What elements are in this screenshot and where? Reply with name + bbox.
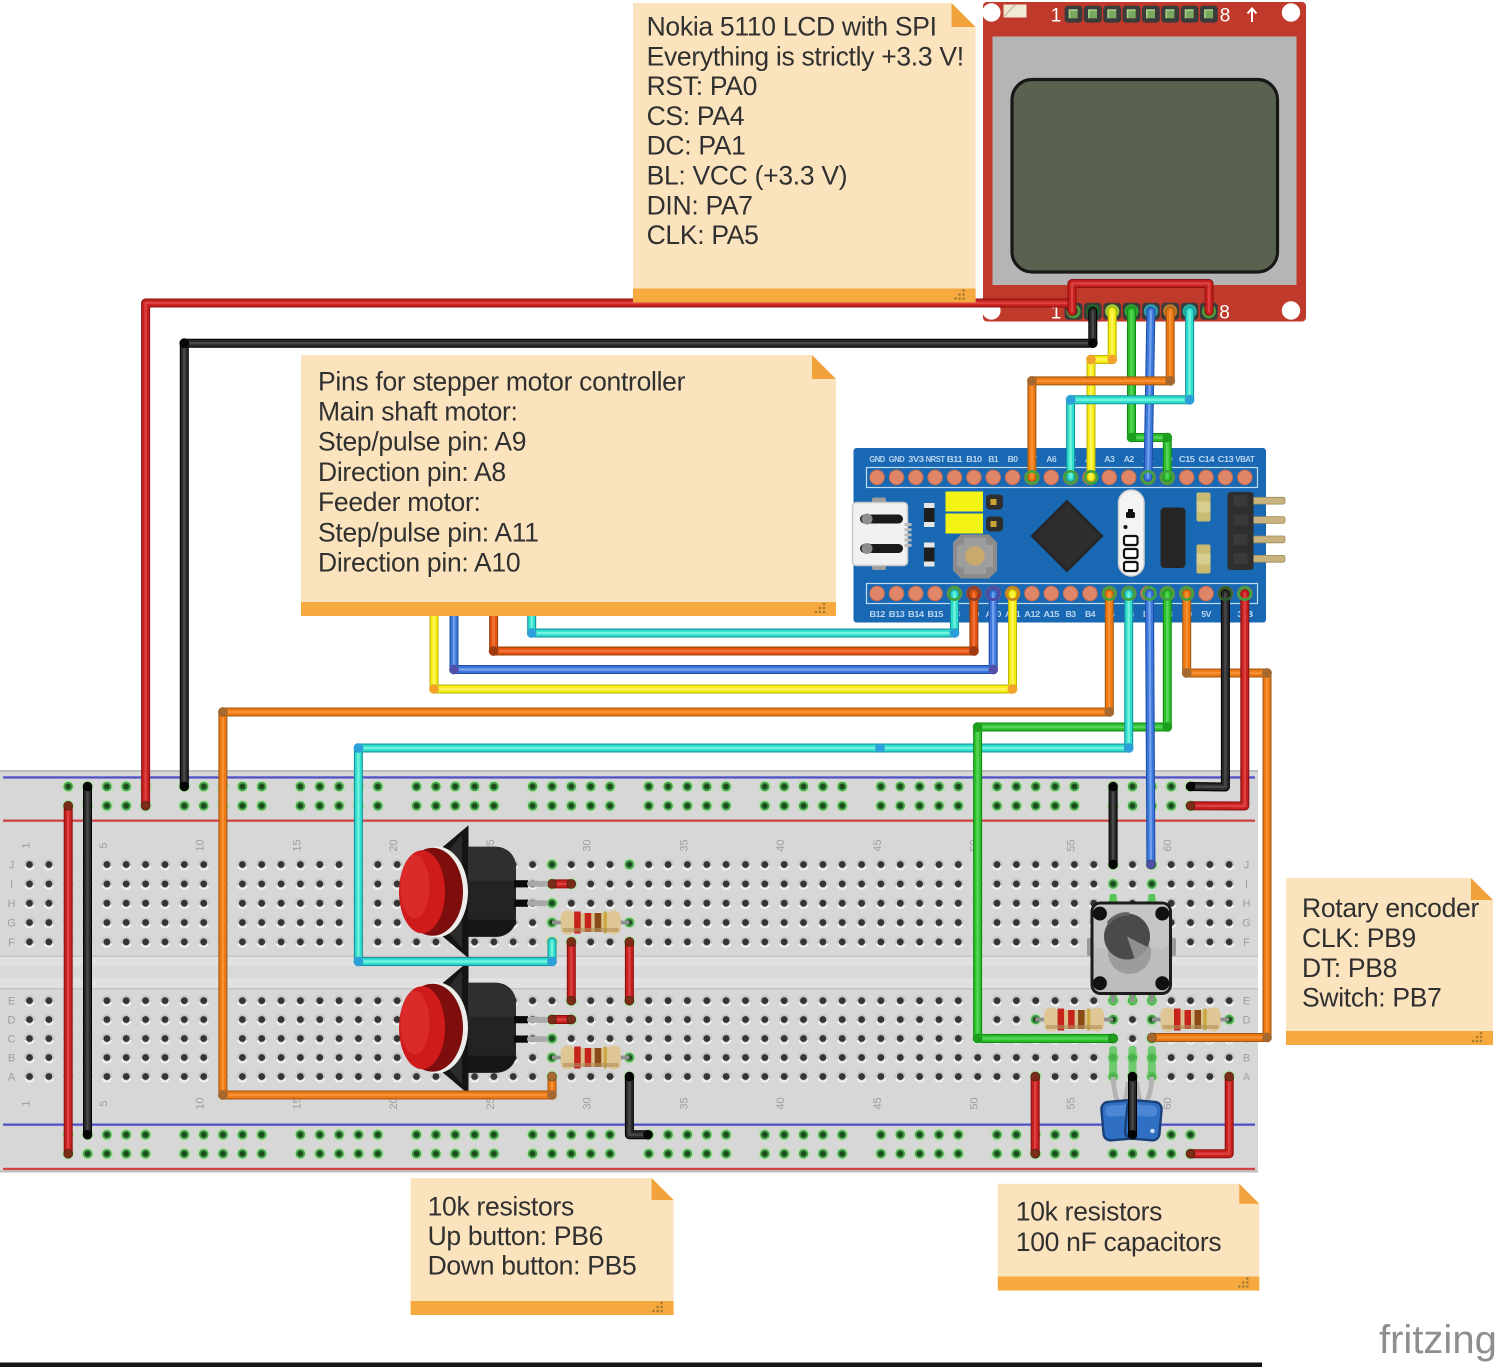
svg-text:1: 1 bbox=[21, 1100, 33, 1106]
svg-text:I: I bbox=[1245, 879, 1248, 891]
svg-text:100 nF capacitors: 100 nF capacitors bbox=[1016, 1227, 1222, 1257]
svg-text:E: E bbox=[8, 996, 15, 1008]
Nokia 5110 LCD module bbox=[982, 2, 1306, 324]
stm32 mcu bbox=[1031, 500, 1104, 573]
wire jumper enc gnd bbox=[1109, 782, 1118, 869]
wire LCD vcc loop bbox=[1072, 284, 1209, 312]
wire jumper enc right bbox=[1186, 1072, 1234, 1158]
yellow jumpers bbox=[946, 492, 984, 512]
svg-text:35: 35 bbox=[678, 1097, 690, 1109]
svg-text:60: 60 bbox=[1162, 839, 1174, 851]
wire PB9 encoder CLK bbox=[1147, 594, 1272, 1043]
wire LCD CS wire bbox=[179, 311, 1097, 791]
crystal bbox=[1119, 490, 1145, 576]
smd resistors bbox=[924, 503, 935, 527]
wire LCD BL wire bbox=[1027, 311, 1175, 477]
svg-text:B0: B0 bbox=[1008, 454, 1019, 464]
note LCD pins bbox=[633, 3, 976, 303]
resistor R2 10k bbox=[552, 1046, 629, 1070]
svg-text:55: 55 bbox=[1065, 839, 1077, 851]
svg-text:CS: PA4: CS: PA4 bbox=[647, 101, 745, 131]
wire PB5 down button bbox=[218, 594, 1114, 1100]
pushbutton S1 up bbox=[399, 825, 548, 958]
svg-text:Feeder motor:: Feeder motor: bbox=[318, 487, 481, 517]
svg-text:Direction pin: A10: Direction pin: A10 bbox=[318, 548, 520, 578]
wire stepper A9 bbox=[489, 594, 979, 656]
svg-text:45: 45 bbox=[872, 839, 884, 851]
svg-text:Down button: PB5: Down button: PB5 bbox=[428, 1250, 637, 1280]
wire LCD DIN wire bbox=[1127, 311, 1173, 477]
svg-text:10k resistors: 10k resistors bbox=[428, 1191, 574, 1221]
svg-text:35: 35 bbox=[678, 839, 690, 851]
svg-text:B1: B1 bbox=[988, 454, 999, 464]
svg-text:10: 10 bbox=[195, 1097, 207, 1109]
svg-text:E: E bbox=[1243, 996, 1250, 1008]
svg-text:Main shaft motor:: Main shaft motor: bbox=[318, 397, 518, 427]
svg-text:F: F bbox=[1243, 937, 1250, 949]
svg-text:D: D bbox=[8, 1015, 16, 1027]
svg-text:J: J bbox=[1244, 860, 1250, 872]
svg-text:3V3: 3V3 bbox=[908, 454, 924, 464]
svg-text:A12: A12 bbox=[1024, 609, 1040, 619]
pushbutton S2 down bbox=[399, 961, 548, 1094]
svg-text:C15: C15 bbox=[1179, 454, 1195, 464]
svg-text:B3: B3 bbox=[1066, 609, 1077, 619]
wire LCD DC wire bbox=[1086, 311, 1117, 477]
capacitor C2 100nF bbox=[1124, 1077, 1162, 1141]
micro usb bbox=[853, 498, 912, 571]
note rotary encoder bbox=[1286, 878, 1493, 1045]
svg-text:B13: B13 bbox=[889, 609, 905, 619]
reset button bbox=[953, 535, 997, 579]
svg-text:B15: B15 bbox=[927, 609, 943, 619]
svg-text:A: A bbox=[1243, 1072, 1251, 1084]
bottom crop bar bbox=[0, 1363, 1262, 1367]
svg-text:G: G bbox=[1242, 918, 1251, 930]
svg-text:DT: PB8: DT: PB8 bbox=[1302, 953, 1397, 983]
wire jumper enc left bbox=[1031, 1072, 1040, 1158]
wire PB6 up button lower part bbox=[354, 743, 1129, 966]
svg-text:Step/pulse pin: A9: Step/pulse pin: A9 bbox=[318, 427, 526, 457]
resistor R3 10k bbox=[1035, 1008, 1113, 1032]
svg-text:A: A bbox=[8, 1072, 16, 1084]
wire PB8 encoder DT bbox=[973, 594, 1173, 1044]
svg-text:G: G bbox=[7, 918, 16, 930]
breadboard bbox=[0, 770, 1258, 1173]
svg-text:C14: C14 bbox=[1198, 454, 1214, 464]
svg-text:F: F bbox=[8, 937, 15, 949]
svg-text:40: 40 bbox=[775, 1097, 787, 1109]
svg-text:RST: PA0: RST: PA0 bbox=[647, 71, 758, 101]
svg-text:10: 10 bbox=[195, 839, 207, 851]
wire jumper col29 bbox=[567, 937, 576, 1005]
svg-text:NRST: NRST bbox=[926, 454, 946, 464]
svg-text:J: J bbox=[9, 860, 15, 872]
svg-text:Switch: PB7: Switch: PB7 bbox=[1302, 983, 1442, 1013]
svg-text:45: 45 bbox=[872, 1097, 884, 1109]
svg-text:5V: 5V bbox=[1201, 609, 1211, 619]
svg-text:8: 8 bbox=[1220, 6, 1231, 27]
svg-text:A2: A2 bbox=[1124, 454, 1135, 464]
leds bbox=[1197, 493, 1211, 522]
svg-text:D: D bbox=[1243, 1015, 1251, 1027]
svg-text:BL: VCC (+3.3 V): BL: VCC (+3.3 V) bbox=[647, 161, 848, 191]
STM32 blue pill board bbox=[853, 448, 1286, 623]
svg-text:30: 30 bbox=[582, 839, 594, 851]
wire LCD GND wire bbox=[1066, 311, 1195, 477]
wire rail jumper black left bbox=[83, 782, 92, 1139]
capacitor C1 100nF bbox=[1101, 1077, 1139, 1141]
wire stepper A11 bbox=[429, 594, 1017, 694]
wire rail jumper red left bbox=[64, 801, 73, 1158]
svg-text:Everything is strictly +3.3 V!: Everything is strictly +3.3 V! bbox=[647, 41, 964, 71]
wire jumper cap gnd bbox=[1128, 1072, 1137, 1139]
svg-text:15: 15 bbox=[291, 839, 303, 851]
svg-text:A6: A6 bbox=[1046, 454, 1057, 464]
connection highlights bbox=[1109, 1046, 1117, 1080]
svg-text:GND: GND bbox=[869, 454, 885, 464]
wire pill 3.3V bbox=[1186, 594, 1245, 811]
svg-text:A15: A15 bbox=[1043, 609, 1059, 619]
swd header bbox=[1228, 492, 1286, 570]
svg-text:B14: B14 bbox=[908, 609, 924, 619]
svg-text:1: 1 bbox=[21, 842, 33, 848]
wire jumper gnd btn bbox=[625, 1072, 653, 1139]
resistor R1 10k bbox=[552, 911, 629, 935]
svg-text:C13: C13 bbox=[1218, 454, 1234, 464]
svg-text:60: 60 bbox=[1162, 1097, 1174, 1109]
note rc note bbox=[998, 1184, 1260, 1291]
svg-text:C: C bbox=[8, 1034, 16, 1046]
svg-text:10k resistors: 10k resistors bbox=[1016, 1196, 1162, 1226]
svg-text:50: 50 bbox=[969, 1097, 981, 1109]
svg-text:B: B bbox=[8, 1053, 15, 1065]
svg-text:30: 30 bbox=[582, 1097, 594, 1109]
svg-text:1: 1 bbox=[1051, 6, 1062, 27]
wire LCD RST supply bbox=[141, 303, 1072, 810]
svg-text:Pins for stepper motor control: Pins for stepper motor controller bbox=[318, 366, 686, 396]
svg-text:B12: B12 bbox=[869, 609, 885, 619]
wire jumper row I bbox=[547, 879, 576, 888]
wire jumper col32 bbox=[625, 937, 634, 1005]
svg-text:B4: B4 bbox=[1085, 609, 1096, 619]
svg-text:40: 40 bbox=[775, 839, 787, 851]
svg-text:55: 55 bbox=[1065, 1097, 1077, 1109]
wire stepper A10 bbox=[449, 594, 998, 675]
resistor R4 10k bbox=[1152, 1008, 1229, 1032]
svg-text:B11: B11 bbox=[947, 454, 963, 464]
svg-text:GND: GND bbox=[889, 454, 905, 464]
svg-text:H: H bbox=[8, 898, 16, 910]
svg-text:B10: B10 bbox=[966, 454, 982, 464]
svg-text:H: H bbox=[1243, 898, 1251, 910]
svg-text:CLK: PA5: CLK: PA5 bbox=[647, 220, 759, 250]
rotary encoder bbox=[1087, 894, 1176, 1004]
wire pill GND bbox=[1186, 594, 1226, 792]
pad rings bbox=[948, 471, 1250, 599]
note buttons bbox=[411, 1178, 674, 1315]
svg-text:Step/pulse pin: A11: Step/pulse pin: A11 bbox=[318, 517, 539, 547]
svg-text:DC: PA1: DC: PA1 bbox=[647, 131, 746, 161]
svg-text:VBAT: VBAT bbox=[1235, 454, 1255, 464]
svg-text:Direction pin: A8: Direction pin: A8 bbox=[318, 457, 506, 487]
svg-text:Rotary encoder: Rotary encoder bbox=[1302, 893, 1479, 923]
svg-text:fritzing: fritzing bbox=[1379, 1318, 1497, 1362]
boot jumper block bbox=[1161, 508, 1186, 569]
wire PB7 encoder switch bbox=[1146, 594, 1155, 870]
svg-text:A3: A3 bbox=[1104, 454, 1115, 464]
svg-text:20: 20 bbox=[388, 839, 400, 851]
wire jumper row D bbox=[547, 1015, 576, 1024]
svg-text:B: B bbox=[1243, 1053, 1250, 1065]
svg-text:Up button: PB6: Up button: PB6 bbox=[428, 1221, 604, 1251]
wire PB6 upper part bbox=[1124, 594, 1134, 753]
note stepper pins bbox=[301, 355, 836, 616]
svg-text:5: 5 bbox=[98, 842, 110, 848]
svg-text:8: 8 bbox=[1219, 303, 1230, 324]
wire stepper A8 bbox=[527, 594, 960, 638]
svg-text:Nokia 5110 LCD with SPI: Nokia 5110 LCD with SPI bbox=[647, 12, 937, 42]
svg-text:DIN: PA7: DIN: PA7 bbox=[647, 190, 753, 220]
svg-text:5: 5 bbox=[98, 1100, 110, 1106]
svg-text:CLK: PB9: CLK: PB9 bbox=[1302, 923, 1416, 953]
svg-text:I: I bbox=[10, 879, 13, 891]
wire LCD CLK wire bbox=[1148, 311, 1151, 477]
